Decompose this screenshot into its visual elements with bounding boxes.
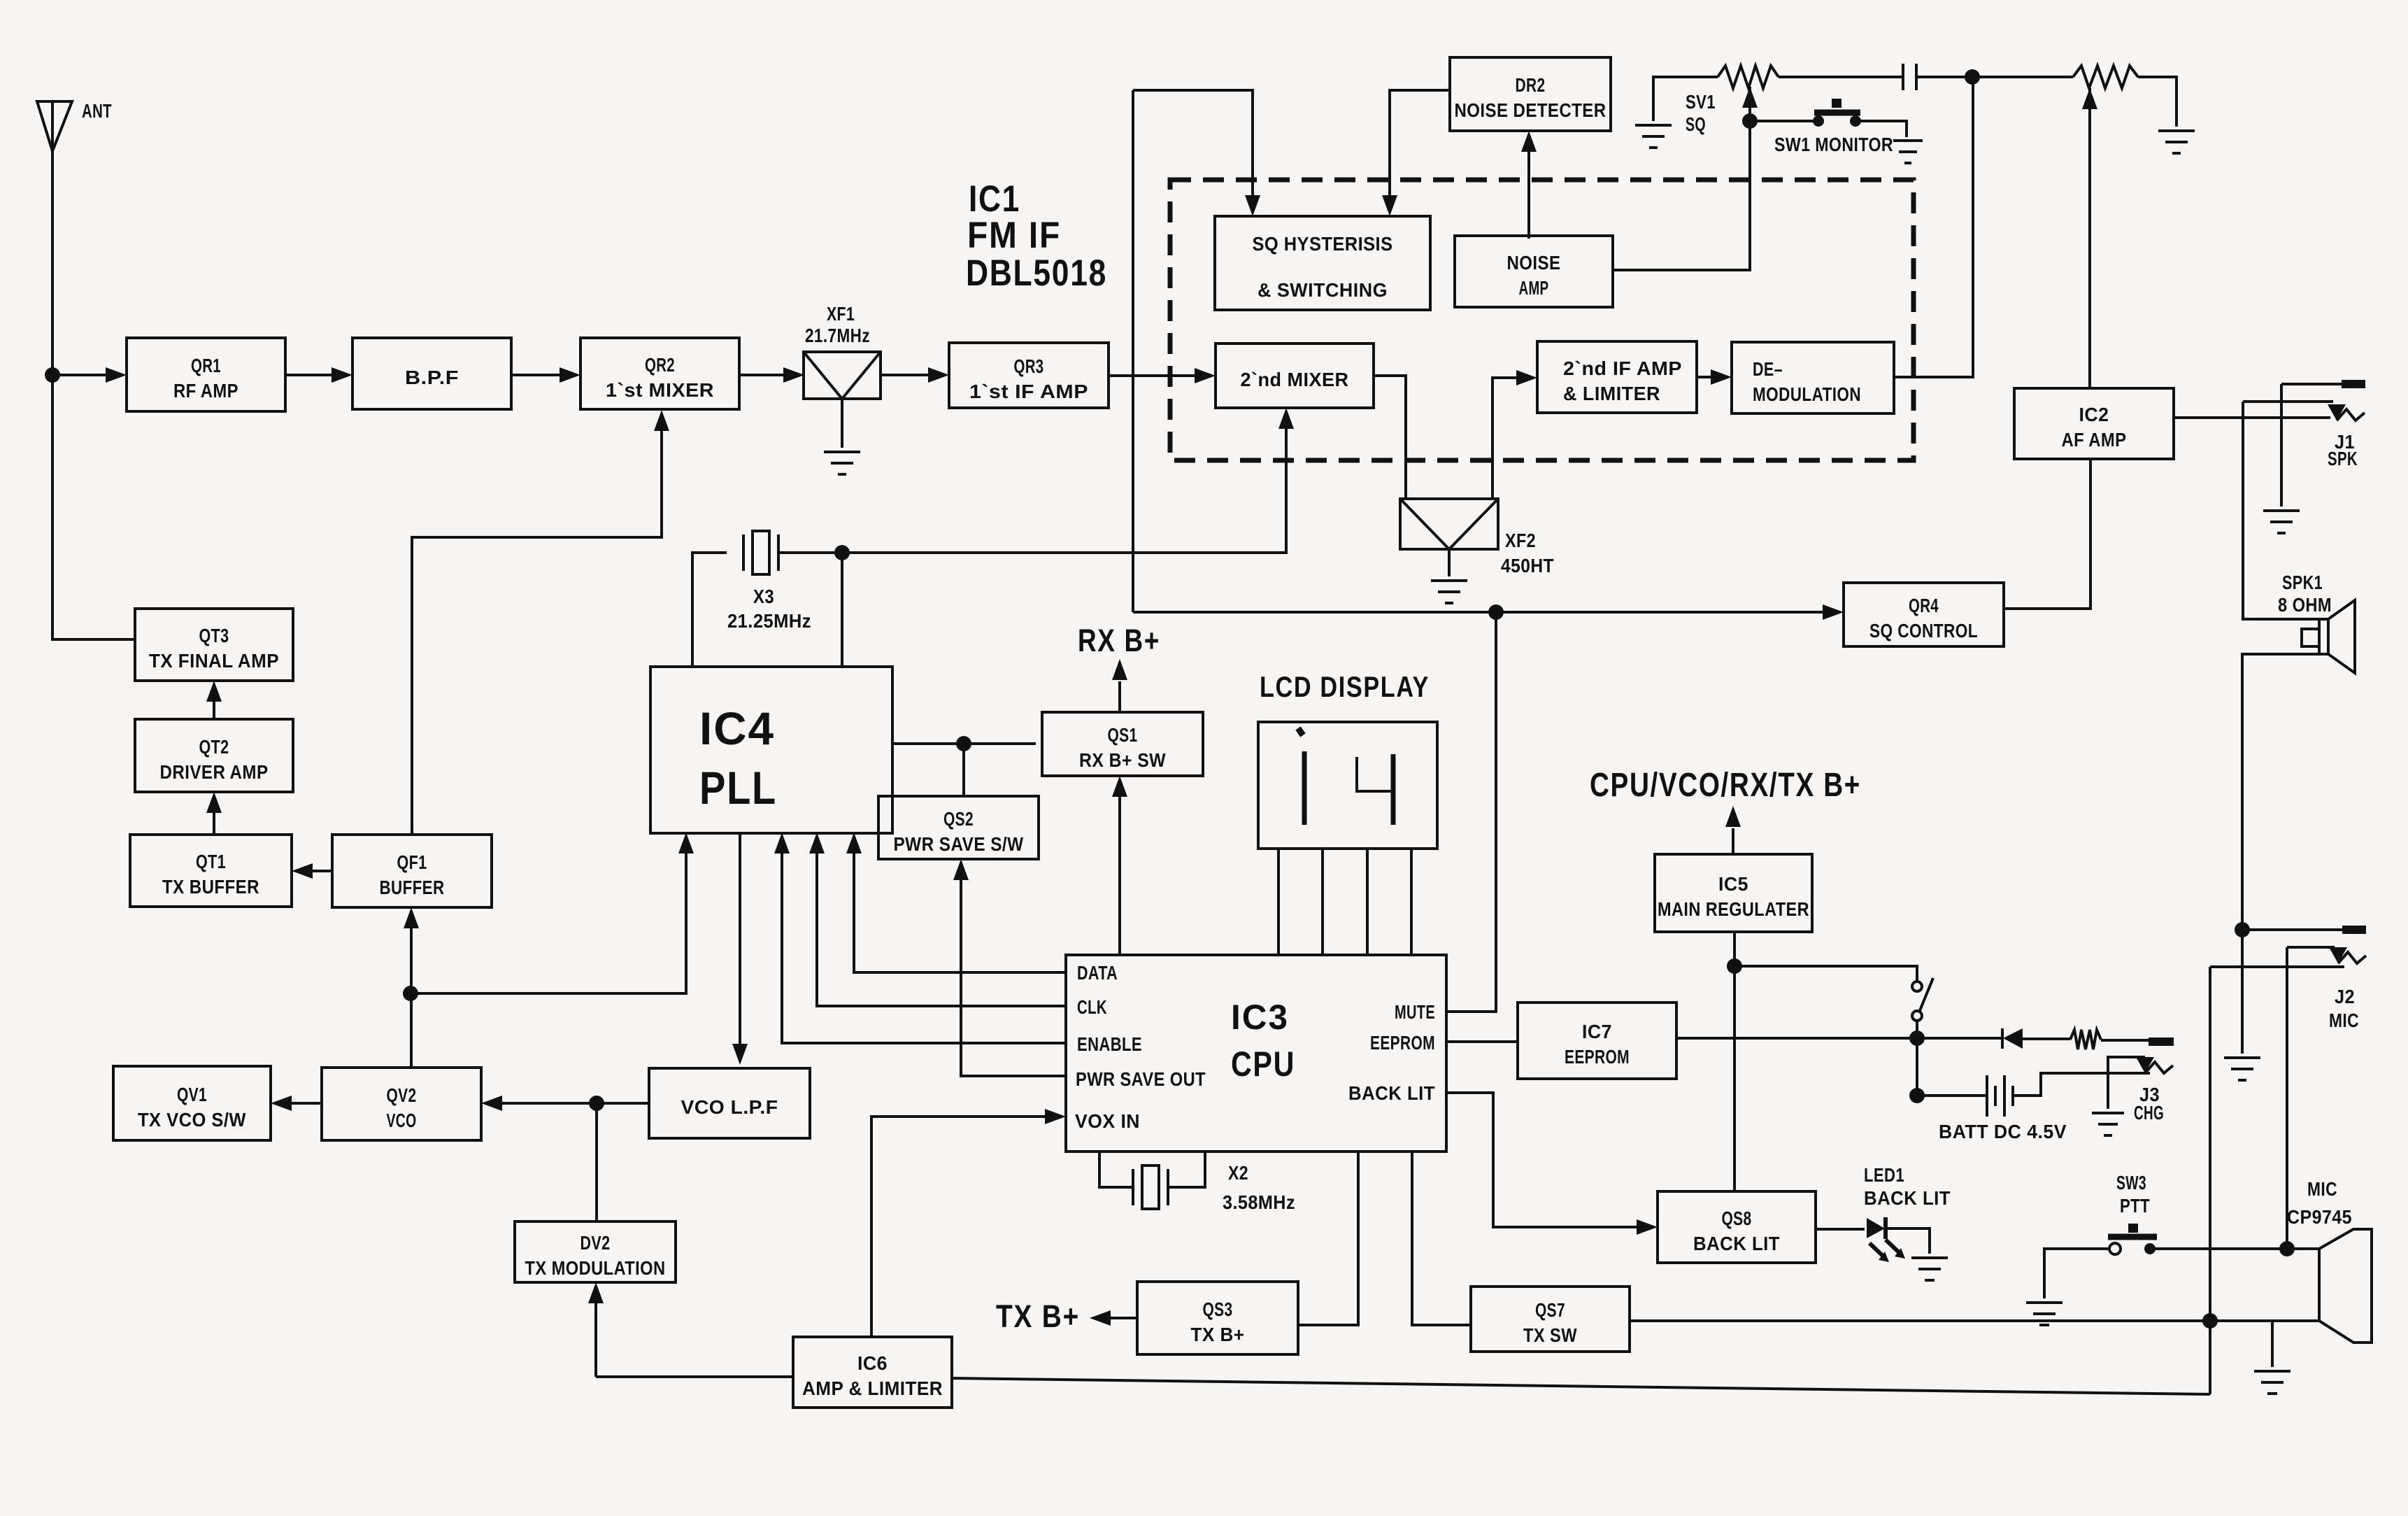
- arrowhead into 2nd IF amp: [1516, 370, 1537, 385]
- svg-text:EEPROM: EEPROM: [1370, 1032, 1435, 1054]
- arrowhead into SQ hysterisis left: [1245, 195, 1260, 216]
- svg-text:450HT: 450HT: [1501, 555, 1554, 576]
- switch QS1 RX B+ SW: [1042, 712, 1203, 776]
- svg-text:QT3: QT3: [199, 625, 229, 646]
- ground right of SW1: [1893, 141, 1923, 163]
- svg-text:SPK1: SPK1: [2282, 572, 2323, 593]
- ground below J3: [2092, 1113, 2124, 1135]
- wire power switch to battery node: [1916, 1021, 1918, 1096]
- svg-text:CP9745: CP9745: [2287, 1206, 2352, 1228]
- wire QT1 to QT2 stem: [213, 798, 215, 835]
- resistor charge: [2070, 1030, 2101, 1049]
- demodulator DE-MODULATION: [1732, 342, 1894, 413]
- node X3 IC4 junction: [834, 545, 850, 560]
- wire IC6 top riser: [870, 1117, 873, 1337]
- svg-text:VCO: VCO: [387, 1110, 417, 1131]
- wire BPF to QR2: [511, 374, 574, 376]
- wire lcd pin 4: [1410, 849, 1413, 955]
- speaker SPK1 symbol: [2302, 600, 2355, 673]
- amplifier QT2 DRIVER AMP: [135, 719, 293, 792]
- arrowhead ENABLE into IC4: [774, 833, 790, 853]
- svg-text:SPK: SPK: [2328, 448, 2358, 469]
- arrowhead into QT3: [206, 681, 222, 702]
- node switch IC7 junction: [1909, 1030, 1925, 1046]
- wire IC4 to QS1: [892, 742, 1036, 745]
- lcd display box: [1258, 722, 1437, 849]
- arrowhead into DR2: [1521, 131, 1537, 152]
- filter XF1 symbol: [804, 352, 881, 399]
- svg-text:EEPROM: EEPROM: [1565, 1046, 1630, 1068]
- svg-text:TX BUFFER: TX BUFFER: [162, 876, 259, 898]
- svg-text:AMP & LIMITER: AMP & LIMITER: [802, 1377, 943, 1399]
- wire ENABLE to IC4: [782, 839, 1066, 1043]
- svg-text:SW3: SW3: [2116, 1172, 2146, 1193]
- svg-text:QS1: QS1: [1108, 724, 1138, 746]
- svg-text:PTT: PTT: [2120, 1195, 2150, 1217]
- arrowhead IC5 B+ up: [1725, 806, 1741, 827]
- wire QT2 to QT3 stem: [213, 687, 215, 719]
- svg-text:QT2: QT2: [199, 736, 229, 758]
- crystal X2 symbol: [1133, 1166, 1168, 1209]
- ground below LED1: [1911, 1258, 1948, 1280]
- ground below J2: [2224, 1058, 2260, 1080]
- svg-text:QR4: QR4: [1909, 595, 1939, 616]
- wire DATA to IC4: [854, 839, 1066, 972]
- svg-text:XF1: XF1: [827, 303, 855, 325]
- svg-text:IC7: IC7: [1582, 1021, 1612, 1042]
- wire J3 bracket: [2108, 1057, 2145, 1109]
- filter B.P.F: [352, 338, 511, 409]
- wire X3 junction to IC4 top: [841, 553, 843, 667]
- wire J2 tip to mic: [2286, 947, 2288, 1249]
- arrowhead into VCO LPF: [732, 1044, 748, 1065]
- lcd digit 1: [1298, 728, 1304, 825]
- jack J2 tip arrow: [2329, 947, 2347, 963]
- wire LPF to QV2: [487, 1102, 649, 1105]
- filter VCO L.P.F: [649, 1068, 810, 1138]
- wire lcd pin 1: [1277, 849, 1280, 955]
- wire volume wiper to IC2: [2088, 88, 2091, 388]
- svg-text:VOX IN: VOX IN: [1075, 1110, 1140, 1132]
- node J2 sleeve junction: [2235, 922, 2250, 937]
- switch QS3 TX B+: [1137, 1282, 1298, 1354]
- wire IC2 output to J1: [2174, 416, 2330, 419]
- buffer QT1 TX BUFFER: [130, 835, 292, 907]
- wire QR4 to IC2: [2004, 459, 2090, 609]
- svg-text:TX FINAL AMP: TX FINAL AMP: [149, 650, 279, 672]
- svg-text:CHG: CHG: [2134, 1102, 2164, 1124]
- wire IC3 to QS3: [1298, 1152, 1358, 1325]
- wire QV2 to QV1: [277, 1102, 322, 1105]
- wire QR2 to XF1: [739, 374, 798, 376]
- svg-text:DBL5018: DBL5018: [966, 253, 1107, 294]
- svg-text:IC5: IC5: [1718, 873, 1748, 895]
- svg-text:2`nd MIXER: 2`nd MIXER: [1241, 369, 1349, 390]
- wire junction to IC4: [411, 839, 686, 993]
- wire speaker bottom: [2242, 654, 2319, 930]
- wire J2 sleeve ground leg: [2241, 930, 2244, 1054]
- wire LED1 to ground: [1886, 1228, 1930, 1254]
- wire J1 ring line: [2243, 400, 2333, 403]
- svg-text:QF1: QF1: [397, 851, 427, 873]
- wire squelch to SQ hysterisis: [1133, 90, 1253, 210]
- wire J1 ring to speaker: [2243, 402, 2319, 619]
- wire J2 bottom line: [2210, 965, 2344, 968]
- arrowhead into QV1: [271, 1096, 292, 1111]
- arrowhead DATA into IC4: [846, 833, 862, 853]
- svg-text:SV1: SV1: [1686, 91, 1716, 113]
- modulator DV2 TX MODULATION: [515, 1221, 676, 1282]
- wire J2 line down to bus: [2209, 967, 2211, 1394]
- svg-text:QR2: QR2: [645, 354, 675, 376]
- potentiometer SV1 SQ: [1718, 66, 1779, 88]
- svg-text:X3: X3: [753, 586, 774, 607]
- svg-text:RX B+: RX B+: [1078, 623, 1160, 658]
- arrowhead into SQ hysterisis right: [1382, 195, 1397, 216]
- svg-text:SQ HYSTERISIS: SQ HYSTERISIS: [1253, 233, 1393, 255]
- svg-text:QV2: QV2: [387, 1084, 417, 1106]
- svg-text:TX VCO S/W: TX VCO S/W: [138, 1109, 246, 1131]
- svg-text:B.P.F: B.P.F: [405, 367, 459, 388]
- svg-text:TX SW: TX SW: [1523, 1324, 1577, 1346]
- antenna ANT symbol: [37, 101, 72, 151]
- arrowhead into QT1: [292, 863, 313, 879]
- arrowhead into DV2: [588, 1282, 604, 1303]
- wire VOX IN from IC6: [871, 1117, 1060, 1337]
- svg-text:BACK LIT: BACK LIT: [1693, 1233, 1780, 1254]
- wire IC4 to VCO LPF: [739, 833, 741, 1058]
- wire IF amp to demodulation: [1697, 376, 1725, 378]
- wire J2 tip line: [2287, 946, 2335, 949]
- wire SW3 to mic: [2150, 1247, 2319, 1250]
- switch QS7 TX SW: [1471, 1287, 1630, 1352]
- IC1 dashed boundary: [1170, 180, 1914, 460]
- wire IC3 to QS1: [1118, 782, 1121, 955]
- svg-text:1`st MIXER: 1`st MIXER: [606, 379, 714, 401]
- amplifier 2'nd IF AMP & LIMITER: [1537, 341, 1697, 413]
- arrowhead into QT2: [206, 792, 222, 813]
- svg-text:1`st IF AMP: 1`st IF AMP: [969, 381, 1088, 402]
- crystal X3 symbol: [743, 531, 778, 574]
- detector DR2 NOISE DETECTER: [1450, 57, 1611, 131]
- svg-text:IC4: IC4: [699, 702, 775, 754]
- svg-text:RF AMP: RF AMP: [173, 380, 238, 402]
- amplifier IC2 AF AMP: [2014, 388, 2174, 459]
- node SV1 wiper SW1 junction: [1742, 113, 1758, 129]
- svg-text:TX MODULATION: TX MODULATION: [525, 1257, 666, 1279]
- svg-text:BATT DC 4.5V: BATT DC 4.5V: [1939, 1121, 2067, 1142]
- svg-text:ENABLE: ENABLE: [1077, 1033, 1142, 1055]
- svg-text:& LIMITER: & LIMITER: [1563, 383, 1660, 404]
- node mic J2tip junction: [2279, 1241, 2295, 1256]
- wire SV1 left leg: [1653, 77, 1718, 121]
- jack J1 sleeve contact bar: [2342, 380, 2365, 388]
- wire volume pot right leg: [2138, 77, 2177, 127]
- wire J1 sleeve to ground: [2280, 384, 2283, 506]
- wire DV2 top to VCO net: [595, 1103, 598, 1221]
- regulator IC5 MAIN REGULATER: [1655, 854, 1812, 932]
- svg-text:MODULATION: MODULATION: [1753, 383, 1861, 405]
- arrowhead CLK into IC4: [809, 833, 825, 853]
- amplifier QR3 1'st IF AMP: [949, 343, 1109, 408]
- wire QF1 to QR2 LO: [412, 416, 662, 835]
- svg-text:LED1: LED1: [1864, 1164, 1904, 1186]
- wire to SW1 monitor: [1750, 120, 1818, 122]
- svg-text:IC1: IC1: [969, 178, 1020, 220]
- wire J2 sleeve line: [2242, 928, 2342, 931]
- node mute junction: [1488, 604, 1504, 620]
- wire junction down to QS2: [962, 744, 965, 796]
- wire XF1 to QR3: [880, 374, 943, 376]
- svg-text:NOISE: NOISE: [1507, 252, 1561, 274]
- arrowhead into 2nd mixer: [1195, 368, 1216, 383]
- svg-text:DATA: DATA: [1077, 962, 1118, 984]
- wire IC5 down to QS8: [1733, 932, 1736, 1191]
- node battery junction: [1909, 1088, 1925, 1103]
- arrowhead into QR4: [1823, 604, 1844, 620]
- ground below SV1 left: [1635, 125, 1672, 148]
- svg-text:IC6: IC6: [857, 1352, 888, 1374]
- wire noise amp to DR2: [1527, 137, 1530, 239]
- svg-text:MAIN REGULATER: MAIN REGULATER: [1658, 898, 1809, 920]
- microphone MIC CP9745 symbol: [2319, 1229, 2372, 1343]
- jack J1 tip arrow: [2328, 404, 2346, 420]
- memory IC7 EEPROM: [1518, 1003, 1676, 1079]
- svg-text:SW1 MONITOR: SW1 MONITOR: [1774, 134, 1893, 155]
- wire 2nd mixer to XF2: [1374, 376, 1406, 499]
- wire squelch feed to QR4: [1133, 611, 1837, 614]
- ground below XF1: [824, 452, 860, 474]
- wire X2 right stub: [1169, 1152, 1205, 1187]
- svg-text:AMP: AMP: [1519, 277, 1549, 299]
- svg-text:FM IF: FM IF: [967, 215, 1061, 256]
- wire demodulation output riser: [1894, 76, 1973, 377]
- node QS7 wire junction: [2202, 1313, 2218, 1329]
- wire squelch feed vertical: [1132, 90, 1134, 612]
- svg-text:MUTE: MUTE: [1395, 1001, 1435, 1023]
- wire SW3 to ground: [2044, 1249, 2109, 1298]
- switch SW3 PTT: [2108, 1224, 2157, 1254]
- switch QV1 TX VCO S/W: [113, 1066, 271, 1140]
- wire DR2 to SQ hysterisis: [1390, 90, 1450, 210]
- svg-text:QS3: QS3: [1203, 1298, 1233, 1320]
- svg-text:QS2: QS2: [943, 808, 974, 830]
- arrowhead into BPF: [332, 367, 352, 383]
- wire QS3 output: [1096, 1317, 1137, 1319]
- wire IC3 to QS7: [1412, 1152, 1471, 1325]
- switch QS8 BACK LIT: [1658, 1191, 1816, 1263]
- svg-text:8 OHM: 8 OHM: [2278, 594, 2332, 616]
- svg-text:TX B+: TX B+: [1191, 1324, 1245, 1345]
- wire antenna down: [52, 151, 135, 639]
- pll IC4 box: [650, 667, 892, 833]
- ground left of SW3: [2026, 1303, 2063, 1325]
- jack J2 sleeve contact bar: [2342, 926, 2366, 934]
- wire X2 left stub: [1099, 1152, 1132, 1187]
- svg-text:BACK LIT: BACK LIT: [1348, 1082, 1435, 1104]
- arrowhead into QS8: [1637, 1219, 1658, 1235]
- wire VCO junction to QF1: [410, 914, 413, 993]
- wire X3 left leg: [692, 553, 727, 667]
- wire QS8 to LED1: [1816, 1228, 1865, 1231]
- wire XF1 ground stem: [841, 399, 843, 448]
- jack J1 spring: [2337, 409, 2365, 420]
- wire battery to J3: [2013, 1073, 2150, 1096]
- svg-text:2`nd IF AMP: 2`nd IF AMP: [1563, 357, 1682, 379]
- jack J2 spring: [2338, 952, 2366, 963]
- filter XF2 symbol: [1400, 499, 1498, 549]
- wire BACK LIT to QS8: [1446, 1093, 1651, 1227]
- svg-text:QR3: QR3: [1014, 355, 1044, 377]
- ground right of volume pot: [2158, 131, 2195, 153]
- svg-text:QS7: QS7: [1535, 1299, 1565, 1321]
- switch power on-off: [1912, 978, 1933, 1021]
- wire IC6 audio bus: [952, 1378, 2210, 1394]
- wire diode to resistor: [2023, 1037, 2070, 1040]
- svg-text:SQ CONTROL: SQ CONTROL: [1869, 620, 1978, 642]
- svg-text:ANT: ANT: [82, 100, 112, 122]
- charge contact bar: [2149, 1037, 2174, 1046]
- svg-text:DE–: DE–: [1753, 358, 1783, 380]
- svg-text:QV1: QV1: [177, 1084, 207, 1105]
- node QS2 branch junction: [956, 736, 971, 751]
- wire X3 line to mixer LO: [778, 414, 1286, 553]
- diode charge: [2002, 1028, 2023, 1049]
- amplifier QT3 TX FINAL AMP: [135, 609, 293, 681]
- arrowhead into QR2: [560, 367, 580, 383]
- switch SW1 MONITOR: [1813, 99, 1861, 127]
- wire junction to QV2: [410, 993, 413, 1068]
- svg-text:DR2: DR2: [1516, 74, 1546, 96]
- mixer 2'nd MIXER: [1216, 343, 1374, 408]
- wire diode line: [1917, 1037, 2002, 1040]
- wire J1 sleeve line: [2281, 383, 2342, 385]
- arrowhead volume wiper: [2082, 88, 2097, 109]
- wire SW1 to ground: [1855, 121, 1907, 137]
- svg-text:IC2: IC2: [2079, 404, 2109, 425]
- amplifier QR1 RF AMP: [127, 338, 285, 411]
- ground below J1: [2263, 511, 2300, 533]
- svg-text:IC3: IC3: [1231, 998, 1289, 1037]
- svg-text:21.7MHz: 21.7MHz: [805, 325, 870, 346]
- arrowhead LO into 2nd mixer: [1278, 408, 1294, 429]
- wire antenna to QR1: [52, 374, 120, 376]
- mixer QR2 1'st MIXER: [580, 338, 739, 409]
- wire MUTE from IC3: [1446, 612, 1496, 1012]
- arrowhead SV1 wiper: [1742, 87, 1758, 108]
- svg-text:QS8: QS8: [1722, 1207, 1752, 1229]
- wire QR1 to BPF: [285, 374, 346, 376]
- wire PWR SAVE OUT to QS2: [961, 865, 1066, 1076]
- wire QS7 to J2 line: [1630, 1319, 2210, 1322]
- wire QS1 B+ arrow stem: [1118, 681, 1121, 712]
- svg-text:DRIVER AMP: DRIVER AMP: [160, 761, 269, 783]
- wire resistor to charge contact: [2101, 1039, 2149, 1042]
- switch QS2 PWR SAVE S/W: [878, 796, 1039, 859]
- arrowhead VCO into IC4: [678, 833, 694, 853]
- svg-text:NOISE DETECTER: NOISE DETECTER: [1455, 99, 1606, 121]
- buffer QF1: [332, 835, 492, 907]
- arrowhead VOX IN into IC3: [1045, 1109, 1066, 1124]
- svg-text:VCO L.P.F: VCO L.P.F: [681, 1096, 778, 1118]
- ground below XF2: [1431, 581, 1467, 603]
- arrowhead into QV2: [481, 1096, 502, 1111]
- node VCO distribution junction: [403, 986, 418, 1001]
- svg-text:RX B+ SW: RX B+ SW: [1079, 749, 1166, 771]
- svg-text:& SWITCHING: & SWITCHING: [1258, 279, 1388, 301]
- wire IC5 B+ arrow stem: [1732, 828, 1734, 854]
- wire XF2 ground stem: [1448, 549, 1451, 576]
- svg-text:DV2: DV2: [580, 1232, 611, 1254]
- svg-text:TX B+: TX B+: [996, 1298, 1080, 1334]
- arrowhead into QS2 bottom: [953, 859, 969, 880]
- potentiometer volume: [2073, 66, 2138, 88]
- wire mic ground leg: [2271, 1321, 2274, 1367]
- svg-text:PWR SAVE S/W: PWR SAVE S/W: [894, 833, 1024, 855]
- svg-text:SQ: SQ: [1686, 113, 1706, 135]
- wire XF2 to 2nd IF amp: [1492, 378, 1531, 499]
- wire lcd pin 3: [1366, 849, 1369, 955]
- svg-text:CPU/VCO/RX/TX B+: CPU/VCO/RX/TX B+: [1590, 767, 1861, 804]
- svg-text:J2: J2: [2335, 986, 2355, 1007]
- svg-text:MIC: MIC: [2307, 1178, 2337, 1200]
- wire battery left: [1917, 1094, 1987, 1097]
- svg-text:PWR SAVE OUT: PWR SAVE OUT: [1076, 1068, 1206, 1090]
- svg-text:3.58MHz: 3.58MHz: [1223, 1191, 1295, 1213]
- node DV2 junction: [589, 1096, 604, 1111]
- wire IC6 to DV2: [594, 1289, 597, 1377]
- svg-text:LCD DISPLAY: LCD DISPLAY: [1260, 670, 1430, 703]
- jack J3 tip arrow: [2136, 1057, 2154, 1073]
- svg-text:CLK: CLK: [1077, 996, 1107, 1018]
- arrowhead into XF1: [783, 367, 804, 383]
- svg-text:BACK LIT: BACK LIT: [1864, 1187, 1951, 1209]
- amplifier IC6 AMP & LIMITER: [793, 1337, 952, 1408]
- wire IC5 to power switch: [1734, 966, 1917, 982]
- wire IC7 to switch node: [1676, 1037, 1917, 1040]
- svg-text:PLL: PLL: [699, 762, 777, 814]
- wire EEPROM to IC7: [1446, 1040, 1518, 1043]
- wire SV1 to capacitor: [1779, 76, 1903, 78]
- arrowhead into demodulation: [1711, 369, 1732, 385]
- wire SV1 wiper down to noise amp: [1614, 87, 1750, 270]
- oscillator QV2 VCO: [322, 1068, 481, 1140]
- capacitor coupling: [1903, 64, 1916, 90]
- arrowhead into QR3: [928, 367, 949, 383]
- wire capacitor to volume pot: [1916, 76, 2073, 78]
- arrowhead into QR1: [106, 367, 127, 383]
- block SQ HYSTERISIS & SWITCHING: [1215, 216, 1430, 310]
- svg-text:21.25MHz: 21.25MHz: [727, 610, 811, 632]
- lcd digit 4: [1357, 754, 1393, 825]
- amplifier NOISE AMP: [1455, 236, 1613, 307]
- wire IC6 left to DV2 drop: [596, 1375, 793, 1378]
- node demod junction on cap line: [1965, 69, 1980, 85]
- svg-text:AF AMP: AF AMP: [2062, 429, 2127, 451]
- node antenna-QR1 junction: [45, 367, 60, 383]
- svg-text:BUFFER: BUFFER: [380, 877, 445, 898]
- arrowhead TX B+ out: [1090, 1310, 1111, 1326]
- jack J3 spring: [2145, 1062, 2173, 1073]
- svg-text:QR1: QR1: [191, 355, 221, 376]
- wire QF1 to QT1: [298, 870, 332, 872]
- svg-text:X2: X2: [1228, 1162, 1248, 1184]
- svg-text:QT1: QT1: [196, 851, 226, 872]
- arrowhead LO into QR2: [654, 410, 669, 431]
- led LED1 symbol: [1867, 1217, 1905, 1262]
- wire CLK to IC4: [817, 839, 1066, 1006]
- arrowhead RX B+ up: [1112, 659, 1127, 680]
